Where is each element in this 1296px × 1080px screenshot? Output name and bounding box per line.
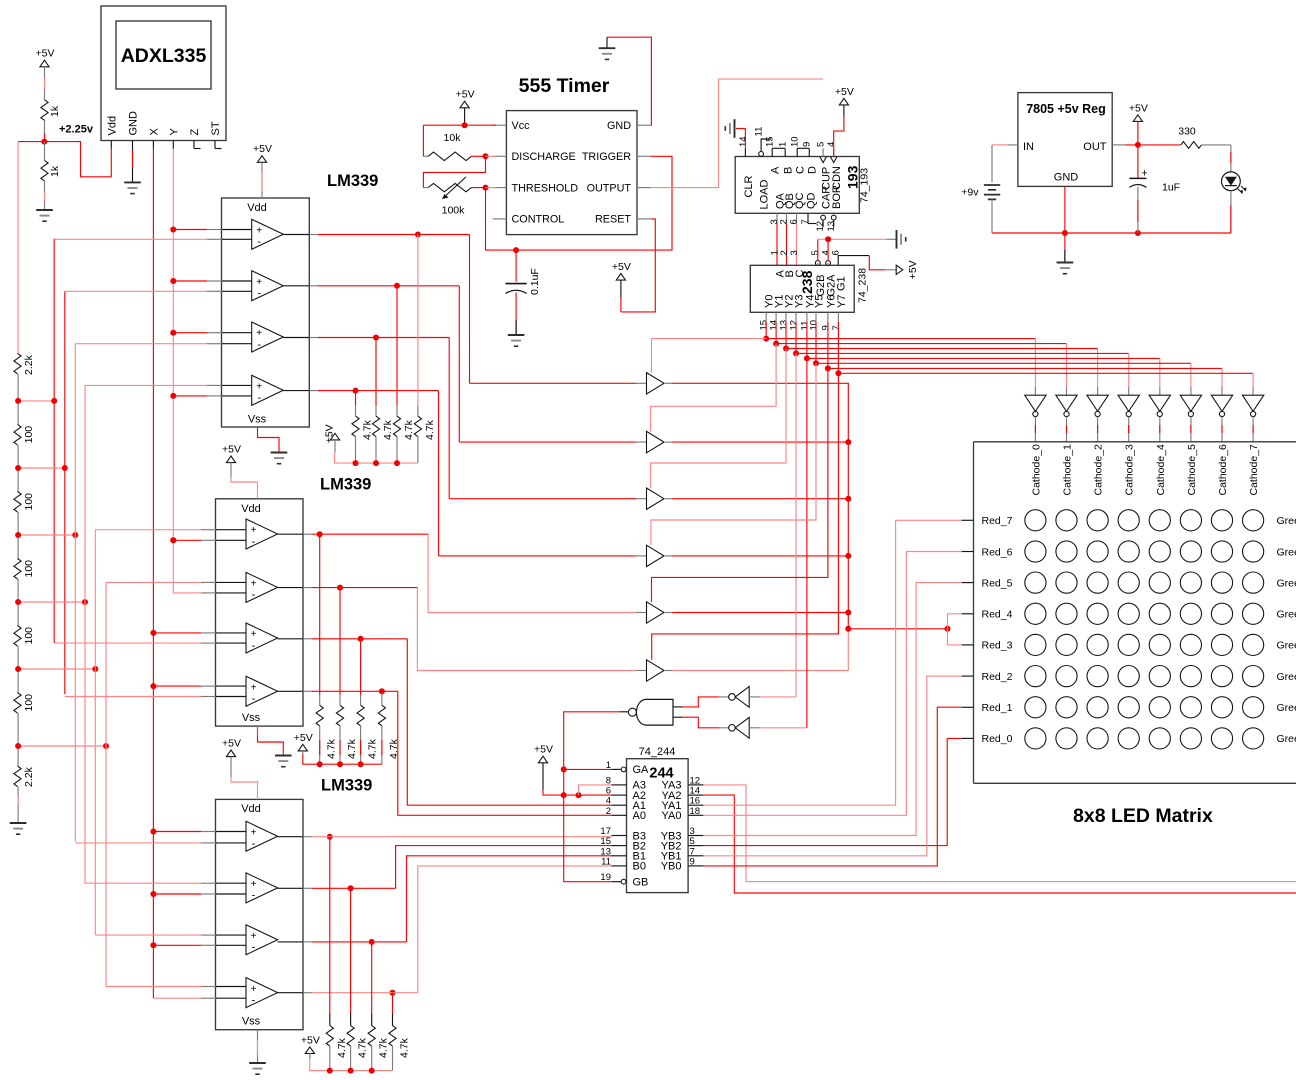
svg-text:A0: A0 xyxy=(633,810,646,822)
wire driver 6 to Cathode_6 pin xyxy=(1221,417,1223,442)
wire ladder bottom to ground xyxy=(17,787,19,823)
74_244 pin 12 YA3 xyxy=(688,784,703,786)
ADXL335 pin stub Z xyxy=(193,141,195,149)
wire block2 comparator input y=632.9 xyxy=(153,632,201,634)
inverter2 input stub xyxy=(749,727,760,729)
wire block1 comparator output y=234.5 xyxy=(283,234,309,236)
junction pull-up xyxy=(373,335,379,341)
wire pull-up riser bank3 xyxy=(350,888,352,1013)
power +5V (bank2) xyxy=(298,744,307,751)
wire T2 output xyxy=(672,441,848,443)
junction bank1 rail xyxy=(394,460,400,466)
junction A3/A2 tee xyxy=(576,792,582,798)
wire 330 to LED xyxy=(1202,144,1231,146)
wire 7805 GND down xyxy=(1064,186,1066,233)
power +5V (LM339 block1) xyxy=(257,156,266,163)
svg-text:4.7k: 4.7k xyxy=(362,419,374,440)
resistor ladder 100 ohm #2 xyxy=(17,468,19,492)
ground (ADXL GND) xyxy=(124,181,141,183)
resistor ladder 100 ohm #3 xyxy=(17,535,19,559)
wire block3 comparator output y=888.3 xyxy=(278,887,303,889)
svg-text:0.1uF: 0.1uF xyxy=(529,268,541,295)
wire bank2 +5V rail xyxy=(303,755,382,765)
svg-text:+5V: +5V xyxy=(534,744,553,756)
ground (7805) xyxy=(1057,262,1074,264)
ground (193 CLR, sideways) xyxy=(734,119,736,138)
svg-text:2.2k: 2.2k xyxy=(23,354,35,375)
svg-text:4.7k: 4.7k xyxy=(367,738,379,759)
wire block1 comparator input y=332.7 xyxy=(173,332,207,334)
resistor 4.7k (bank1) xyxy=(414,416,421,437)
svg-text:15: 15 xyxy=(765,136,776,147)
svg-text:Green_7: Green_7 xyxy=(1277,515,1296,527)
svg-text:10k: 10k xyxy=(444,132,462,144)
svg-text:Vdd: Vdd xyxy=(241,503,261,515)
NAND input 2 wire xyxy=(673,716,683,718)
buffer T4 output stub xyxy=(664,555,672,557)
NAND gate (mirrored) body xyxy=(636,699,673,725)
svg-text:+5V: +5V xyxy=(323,424,335,443)
svg-text:1uF: 1uF xyxy=(1162,182,1180,194)
resistor 4.7k (bank3) xyxy=(347,1026,354,1047)
op-amp comparator block2 U2c xyxy=(246,623,278,653)
wire block2 comparator output y=587.6 xyxy=(278,587,303,589)
svg-text:OUTPUT: OUTPUT xyxy=(587,182,632,194)
junction pull-up bank2 xyxy=(379,688,385,694)
op-amp comparator block2 U2d xyxy=(246,676,278,706)
wire tee to Red_3 pin xyxy=(948,629,962,645)
svg-text:-: - xyxy=(257,236,261,248)
74_244 pin 17 B3 xyxy=(611,835,626,837)
IC 7805 regulator box xyxy=(1018,93,1112,187)
junction pull-up xyxy=(394,283,400,289)
wire pull-up riser bank2 xyxy=(381,691,383,695)
power +5V (bank1, rotated label) xyxy=(330,433,339,440)
resistor 4.7k (bank1) xyxy=(352,416,359,437)
svg-text:1: 1 xyxy=(606,760,611,771)
wire pull-up riser bank3 xyxy=(329,837,331,1014)
svg-text:Red_1: Red_1 xyxy=(982,702,1013,714)
svg-text:Vss: Vss xyxy=(242,712,261,724)
resistor 4.7k (bank1) xyxy=(372,416,379,437)
inverter cathode driver 0 xyxy=(1025,395,1046,411)
svg-text:X: X xyxy=(149,128,161,136)
wire tee to A2 xyxy=(579,794,612,796)
wire R2 to ground xyxy=(44,181,46,210)
wire net Y1 to cathode driver 1 xyxy=(775,322,777,344)
wire 1uF to rail xyxy=(1137,187,1139,233)
capacitor C2 1uF xyxy=(1137,145,1139,179)
buffer triangle T4 xyxy=(647,545,665,566)
wire output to buffer input xyxy=(469,235,471,384)
wire 555 OUTPUT to 193 CUP xyxy=(651,79,823,188)
wire block2 out1 to buffer T5 xyxy=(428,534,636,612)
wire +5V to A3/A2 xyxy=(542,763,544,790)
wire ladder tap 3 xyxy=(18,534,75,536)
svg-text:8x8 LED Matrix: 8x8 LED Matrix xyxy=(1073,805,1213,827)
wire pull-up riser bank2 xyxy=(339,588,341,695)
svg-text:19: 19 xyxy=(600,872,611,883)
74_193 pin 6 QC xyxy=(796,213,798,223)
74_193 pin 5 CUP xyxy=(820,157,827,163)
wire ladder tap 1 xyxy=(18,400,54,402)
wire pull-up riser xyxy=(417,235,419,406)
wire block3 out4 to 244 B0 xyxy=(312,992,418,994)
svg-text:+: + xyxy=(251,629,257,640)
wire 193 QA to 238 A xyxy=(776,224,778,266)
svg-text:4.7k: 4.7k xyxy=(399,1037,411,1058)
74_193 pin 14 CLR xyxy=(744,148,746,156)
svg-text:14: 14 xyxy=(738,136,749,147)
junction pull-up bank2 xyxy=(317,531,323,537)
svg-text:9: 9 xyxy=(802,142,813,147)
wire LED to rail xyxy=(1230,191,1232,233)
junction THRESHOLD xyxy=(483,185,489,191)
74_244 pin 13 B1 xyxy=(611,855,626,857)
junction cap rail xyxy=(1135,230,1141,236)
wire block1 comparator input y=229.5 xyxy=(173,229,207,231)
wire pull-up riser bank3 xyxy=(371,942,373,1014)
buffer T6 output stub xyxy=(664,670,672,672)
wire ADXL GND pin to ground xyxy=(132,149,134,172)
wire YB2 to Red_0 xyxy=(703,738,961,845)
svg-text:+: + xyxy=(251,931,257,942)
junction pull-up xyxy=(353,388,359,394)
svg-text:Cathode_4: Cathode_4 xyxy=(1155,444,1167,496)
74_244 pin 7 YB1 xyxy=(688,855,703,857)
svg-text:1k: 1k xyxy=(49,165,61,177)
svg-text:LM339: LM339 xyxy=(320,476,371,494)
ground (block1 Vss) xyxy=(271,452,288,454)
svg-text:Green_1: Green_1 xyxy=(1277,702,1296,714)
wire reference rail 3 vertical xyxy=(74,344,76,842)
wire block3 comparator input y=842.9 xyxy=(75,842,201,844)
wire driver 2 to Cathode_2 pin xyxy=(1097,417,1099,442)
wire reference rail 6 vertical xyxy=(105,582,107,986)
74_193 QD open tail xyxy=(808,223,816,225)
resistor 4.7k (bank2) xyxy=(316,705,323,726)
svg-text:GND: GND xyxy=(128,111,140,136)
wire block3 comparator input y=998.2 xyxy=(153,997,201,999)
wire block3 out2 to 244 B2 xyxy=(312,887,396,889)
ground (block3 Vss) xyxy=(249,1062,266,1064)
74_193 pin 10 C xyxy=(796,148,798,156)
op-amp comparator block1 U1d xyxy=(252,375,284,405)
svg-text:+5V: +5V xyxy=(222,738,241,750)
wire block1 comparator input y=395.9 xyxy=(173,395,207,397)
svg-text:10: 10 xyxy=(790,136,801,147)
wire pull-up riser xyxy=(396,286,398,406)
svg-text:12: 12 xyxy=(815,221,826,232)
junction GND rail xyxy=(1062,230,1068,236)
svg-text:Vdd: Vdd xyxy=(247,202,267,214)
wire X-axis signal vertical xyxy=(152,149,154,999)
wire net Y4 to cathode driver 4 xyxy=(806,322,808,358)
wire 555 Vcc loop to R 10k xyxy=(423,124,495,126)
IC 74_238 box xyxy=(750,265,854,312)
power +5V (193 CDN) xyxy=(839,98,848,105)
svg-text:Y: Y xyxy=(169,128,181,136)
wire bank3 +5V rail xyxy=(310,1059,393,1071)
resistor 4.7k (bank2) xyxy=(378,705,385,726)
74_193 pin 15 A xyxy=(771,148,773,156)
svg-text:-: - xyxy=(252,838,256,850)
74_193 pin 11 LOAD xyxy=(759,152,764,157)
junction bank3 rail xyxy=(348,1068,354,1074)
junction T5 output xyxy=(845,610,851,616)
svg-text:12: 12 xyxy=(788,320,799,331)
svg-text:9: 9 xyxy=(690,856,695,867)
wire 555 RESET to +5V xyxy=(621,219,655,312)
NAND input 1 wire xyxy=(673,706,683,708)
74_244 pin 14 YA2 xyxy=(688,794,703,796)
wire reference rail 1 vertical xyxy=(53,239,55,644)
junction 0.1uF cap tap xyxy=(513,247,519,253)
74_244 pin 5 YB2 xyxy=(688,845,703,847)
inverter cathode driver 5 xyxy=(1180,395,1201,411)
svg-text:Cathode_2: Cathode_2 xyxy=(1093,444,1105,496)
wire driver 7 to Cathode_7 pin xyxy=(1252,417,1254,442)
wire output to buffer input xyxy=(448,338,450,499)
wire ladder tap 6 xyxy=(18,745,106,747)
svg-text:-: - xyxy=(257,339,261,351)
svg-text:Cathode_0: Cathode_0 xyxy=(1030,444,1042,496)
wire ladder tap 2 xyxy=(18,467,65,469)
svg-text:TRIGGER: TRIGGER xyxy=(582,151,631,163)
buffer triangle T6 xyxy=(647,660,665,681)
svg-text:+: + xyxy=(251,828,257,839)
svg-text:74_193: 74_193 xyxy=(859,168,871,203)
wire YA1 to Red_7 xyxy=(703,520,961,805)
wire node +2.25v to ADXL Vdd pin xyxy=(44,142,111,177)
wire battery to bottom rail xyxy=(991,199,993,233)
svg-text:Red_7: Red_7 xyxy=(982,515,1013,527)
wire output to buffer input xyxy=(458,286,460,442)
wire block2 comparator input y=540.3 xyxy=(173,539,201,541)
svg-text:+: + xyxy=(256,328,262,339)
junction G2A tap xyxy=(825,236,831,242)
power +5V symbol (top-left divider) xyxy=(40,60,49,67)
matrix pin Red_5 xyxy=(962,582,974,584)
wire net Y1 riser to T2 xyxy=(651,344,777,432)
svg-text:100: 100 xyxy=(23,560,35,578)
svg-text:CONTROL: CONTROL xyxy=(512,214,565,226)
svg-text:+5V: +5V xyxy=(835,86,854,98)
buffer triangle T5 xyxy=(647,602,665,623)
wire reference rail 4 vertical xyxy=(84,385,86,883)
8x8 LED Matrix box xyxy=(974,442,1296,784)
wire net Y0 riser to T1 xyxy=(652,339,767,373)
svg-text:-: - xyxy=(257,392,261,404)
svg-text:100: 100 xyxy=(23,627,35,645)
wire capacitor to ground xyxy=(515,293,517,335)
wire ladder tap 5 xyxy=(18,668,95,670)
svg-text:7: 7 xyxy=(831,325,842,330)
op-amp comparator block2 U2b xyxy=(246,572,278,602)
svg-text:13: 13 xyxy=(826,221,837,232)
ADXL335 pin stub Vdd xyxy=(110,141,112,149)
inverter cathode driver 1 xyxy=(1056,395,1077,411)
junction pull-up bank2 xyxy=(337,585,343,591)
wire reference rail 5 vertical xyxy=(94,530,96,935)
wire R1 to node +2.25v xyxy=(44,120,46,141)
ground (ladder bottom) xyxy=(10,822,27,824)
svg-text:74_244: 74_244 xyxy=(639,746,676,758)
svg-text:+5V: +5V xyxy=(612,261,631,273)
svg-text:-: - xyxy=(252,536,256,548)
wire block1 comparator input y=239.3 xyxy=(54,238,207,240)
74_244 pin 16 YA1 xyxy=(688,804,703,806)
svg-text:Green_3: Green_3 xyxy=(1277,640,1296,652)
resistor 4.7k (bank1) xyxy=(393,416,400,437)
svg-text:YB0: YB0 xyxy=(661,861,682,873)
svg-text:Red_5: Red_5 xyxy=(982,577,1013,589)
svg-text:-: - xyxy=(252,890,256,902)
svg-text:2: 2 xyxy=(606,806,611,817)
wire T1 output xyxy=(672,383,848,629)
op-amp comparator block3 U3d xyxy=(246,978,278,1008)
op-amp comparator block1 U1c xyxy=(252,322,284,352)
74_193 pin 7 QD xyxy=(807,213,809,223)
74_193 pin 1 B xyxy=(784,148,786,156)
wire T6 output xyxy=(672,670,848,672)
svg-text:100: 100 xyxy=(23,493,35,511)
74_244 pin 2 A0 xyxy=(611,814,626,816)
svg-text:+5V: +5V xyxy=(456,89,475,101)
svg-text:5: 5 xyxy=(816,142,827,147)
svg-text:GND: GND xyxy=(1054,172,1079,184)
resistor R3 2.2k (ladder top) xyxy=(14,353,21,374)
svg-text:C: C xyxy=(795,166,807,174)
svg-text:4.7k: 4.7k xyxy=(403,419,415,440)
74_193 unconnected input ties xyxy=(772,147,785,149)
svg-text:Vss: Vss xyxy=(248,414,267,426)
svg-text:IN: IN xyxy=(1023,141,1034,153)
junction GA tap xyxy=(561,766,567,772)
junction OUT node xyxy=(1135,142,1141,148)
svg-text:4.7k: 4.7k xyxy=(382,419,394,440)
matrix pin Red_3 xyxy=(962,644,974,646)
74_238 pin 5 G2B xyxy=(815,261,820,266)
wire block3 Vss to ground xyxy=(257,1030,259,1063)
svg-text:+: + xyxy=(256,226,262,237)
74_193 pin 4 CDN xyxy=(830,157,837,163)
power +5V (238 G1, sideways) xyxy=(896,265,903,274)
junction node +2.25v xyxy=(41,139,47,145)
74_244 pin 11 B0 xyxy=(611,865,626,867)
svg-text:B: B xyxy=(783,167,795,174)
wire Y-axis signal vertical xyxy=(172,149,174,593)
resistor 4.7k (bank3) xyxy=(368,1026,375,1047)
power +5V (bank3) xyxy=(305,1047,314,1054)
wire ladder tap 4 xyxy=(18,601,85,603)
wire block1 comparator output y=285.8 xyxy=(283,285,309,287)
wire block2 comparator input y=643.1 xyxy=(54,642,201,644)
svg-text:+: + xyxy=(251,525,257,536)
wire +5V jog to block2 Vdd xyxy=(230,463,232,477)
wire block1 comparator input y=385.4 xyxy=(85,384,207,386)
inverter 1 (to NAND in1) xyxy=(729,694,736,701)
74_193 pin 12 CAR xyxy=(821,215,826,220)
wire block3 comparator input y=831.5 xyxy=(153,831,201,833)
junction output collector to row wire xyxy=(845,626,851,632)
svg-text:Vdd: Vdd xyxy=(241,803,261,815)
svg-text:Cathode_7: Cathode_7 xyxy=(1248,444,1260,496)
svg-text:LM339: LM339 xyxy=(321,777,372,795)
svg-text:-: - xyxy=(252,693,256,705)
svg-text:QD: QD xyxy=(805,192,817,209)
svg-text:6: 6 xyxy=(789,219,800,224)
svg-text:Red_0: Red_0 xyxy=(982,733,1013,745)
svg-text:7805 +5v Reg: 7805 +5v Reg xyxy=(1026,102,1106,116)
wire driver 1 to Cathode_1 pin xyxy=(1066,417,1068,442)
IC 74_244 box xyxy=(627,759,689,893)
wire block2 Vss to ground xyxy=(258,726,284,755)
wire block2 comparator input y=592.9 xyxy=(173,592,201,594)
svg-text:-: - xyxy=(252,589,256,601)
svg-text:GND: GND xyxy=(607,120,631,132)
wire OUT to 330 resistor xyxy=(1125,144,1181,146)
wire IN to battery xyxy=(992,144,1007,146)
wire driver 3 to Cathode_3 pin xyxy=(1128,417,1130,442)
svg-text:Green_6: Green_6 xyxy=(1277,546,1296,558)
svg-text:G1: G1 xyxy=(836,276,848,291)
svg-text:3: 3 xyxy=(789,250,800,255)
junction pull-up bank3 xyxy=(390,990,396,996)
power +5V (7805 OUT) xyxy=(1133,115,1142,122)
wire block1 comparator output y=337.5 xyxy=(283,337,309,339)
svg-text:D: D xyxy=(807,166,819,174)
wire block3 comparator input y=883.2 xyxy=(85,882,201,884)
wire block3 comparator input y=945.3 xyxy=(153,944,201,946)
svg-text:9: 9 xyxy=(820,325,831,330)
LED D1 xyxy=(1222,172,1241,191)
74_193 pin 3 QA xyxy=(776,213,778,223)
power +5V (555 Vcc) xyxy=(460,101,469,108)
74_244 pin 8 A3 xyxy=(611,784,626,786)
svg-text:-: - xyxy=(252,942,256,954)
wire block3 comparator input y=894.0 xyxy=(153,893,201,895)
svg-text:THRESHOLD: THRESHOLD xyxy=(512,182,579,194)
svg-text:GB: GB xyxy=(633,877,649,889)
svg-text:-: - xyxy=(257,288,261,300)
wire net Y0 to cathode driver 0 xyxy=(765,322,767,339)
svg-text:Red_2: Red_2 xyxy=(982,671,1013,683)
junction bank1 rail xyxy=(353,460,359,466)
wire inverter2 input from Y4 riser xyxy=(760,727,807,729)
svg-text:Z: Z xyxy=(189,129,201,136)
ground (555 GND) xyxy=(599,47,616,49)
wire net Y5 to cathode driver 5 xyxy=(815,322,817,363)
wire tap to capacitor xyxy=(515,250,517,282)
wire block3 out3 to 244 B1 xyxy=(312,941,407,943)
wire driver 4 to Cathode_4 pin xyxy=(1159,417,1161,442)
junction bank3 rail xyxy=(369,1068,375,1074)
junction bank2 rail xyxy=(358,761,364,767)
wire block1 comparator input y=281.0 xyxy=(173,280,207,282)
ground (0.1uF) xyxy=(508,334,525,336)
matrix pin Red_6 xyxy=(962,551,974,553)
svg-text:Y7: Y7 xyxy=(836,295,848,308)
svg-text:GA: GA xyxy=(633,764,650,776)
wire block2 comparator output y=691.3 xyxy=(278,690,303,692)
svg-text:DISCHARGE: DISCHARGE xyxy=(512,151,576,163)
wire YB0 to Red_1 xyxy=(703,707,961,866)
buffer triangle T1 xyxy=(647,373,665,394)
ADXL335 pin stub GND xyxy=(132,141,134,149)
svg-text:4.7k: 4.7k xyxy=(336,1037,348,1058)
svg-text:4.7k: 4.7k xyxy=(346,738,358,759)
